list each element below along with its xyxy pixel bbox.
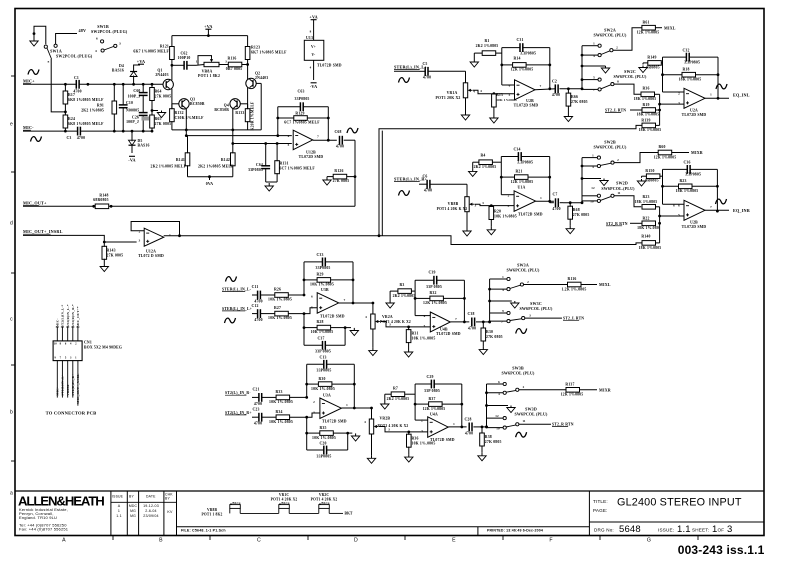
svg-text:TL072D SMD: TL072D SMD (514, 104, 539, 108)
svg-text:ST2_L RTN: ST2_L RTN (563, 316, 584, 320)
svg-text:R3: R3 (399, 283, 404, 287)
resistor R20 (489, 206, 517, 227)
wire 48V feed (56, 28, 87, 44)
svg-text:R17: R17 (68, 93, 75, 97)
svg-text:1: 1 (592, 154, 594, 158)
svg-text:2: 2 (617, 158, 619, 162)
svg-text:27K 0805: 27K 0805 (571, 100, 588, 104)
op-amp U2B (502, 80, 556, 108)
svg-text:C37: C37 (317, 337, 324, 341)
svg-text:ST2_R RTN: ST2_R RTN (606, 222, 628, 226)
svg-text:19-12-03: 19-12-03 (143, 504, 159, 508)
wire preamp bottom rail (172, 83, 261, 131)
svg-text:10K 1%.0805: 10K 1%.0805 (312, 436, 336, 440)
svg-text:6C7 1%0805 MELF: 6C7 1%0805 MELF (284, 121, 320, 125)
svg-text:C39: C39 (428, 271, 435, 275)
svg-text:18K 1%0805: 18K 1%0805 (639, 128, 662, 132)
svg-text:C10: C10 (126, 101, 133, 105)
svg-text:3: 3 (313, 411, 315, 415)
svg-text:4700: 4700 (552, 93, 560, 97)
pot VR8B (437, 184, 477, 228)
title text (593, 497, 742, 513)
text SW2B (593, 140, 627, 150)
svg-text:R142: R142 (221, 158, 230, 162)
svg-text:MIXL: MIXL (664, 25, 676, 30)
svg-text:R36: R36 (412, 437, 419, 441)
svg-text:12K 1%0805: 12K 1%0805 (654, 156, 677, 160)
svg-text:C21: C21 (252, 388, 259, 392)
svg-text:C64: C64 (256, 163, 263, 167)
resistor R28 (303, 320, 347, 334)
svg-text:C29: C29 (426, 375, 433, 379)
bottom zone tick (112, 536, 114, 541)
svg-text:D5: D5 (138, 139, 143, 143)
wire U12B feedback (278, 107, 330, 142)
svg-text:e: e (10, 122, 13, 128)
sine EQ_INR (716, 199, 727, 204)
svg-text:6K7 1%0805 MELF: 6K7 1%0805 MELF (251, 51, 287, 55)
ground R68 (566, 226, 574, 234)
ground R4 (469, 168, 477, 176)
svg-text:BY: BY (165, 496, 170, 500)
label EQ_INL (733, 93, 750, 98)
switch SW3B (498, 380, 525, 396)
ground R30v (479, 347, 487, 355)
svg-text:R61: R61 (642, 21, 649, 25)
resistor R150 (642, 169, 663, 183)
resistor R121 (133, 36, 174, 67)
sine row3 out (516, 329, 527, 334)
switch SW2A (593, 42, 618, 59)
sine st1 in (399, 78, 410, 83)
svg-text:27K 0805: 27K 0805 (573, 213, 590, 217)
bottom zone letter B (159, 538, 163, 544)
capacitor C2 (552, 80, 582, 98)
label STER(L)_IN_L- (222, 288, 252, 292)
svg-text:R116: R116 (228, 57, 237, 61)
svg-text:ST2(L)_IN_R-: ST2(L)_IN_R- (225, 391, 251, 395)
svg-text:C63: C63 (297, 90, 304, 94)
wire INSRL bus up (379, 125, 642, 235)
svg-text:6K7 1%0805 MELF: 6K7 1%0805 MELF (133, 50, 169, 54)
svg-text:+VA: +VA (204, 24, 212, 29)
drg row (594, 524, 732, 535)
svg-text:ST2_R RTN: ST2_R RTN (552, 423, 574, 427)
capacitor C34 (501, 148, 549, 165)
text SW3B (501, 365, 535, 375)
svg-text:B: B (159, 538, 163, 544)
svg-text:VR1C: VR1C (279, 493, 290, 497)
address text (19, 507, 69, 532)
svg-text:R7: R7 (393, 387, 398, 391)
svg-text:A: A (118, 504, 121, 508)
ground VR8B (463, 228, 471, 236)
capacitor C10 (119, 83, 140, 133)
capacitor C38 (467, 312, 491, 331)
svg-text:R149: R149 (647, 56, 656, 60)
svg-text:2N4403: 2N4403 (255, 76, 268, 80)
svg-text:R30: R30 (318, 377, 325, 381)
wire SW2A out (613, 28, 642, 51)
capacitor C23 (252, 408, 276, 426)
svg-text:D: D (354, 538, 358, 544)
svg-text:TITLE:: TITLE: (593, 499, 608, 504)
resistor R14 (500, 57, 551, 72)
label MIC+ (23, 79, 35, 84)
svg-text:R150: R150 (645, 169, 654, 173)
resistor R68 (568, 203, 590, 226)
switch SW3A (502, 275, 529, 292)
svg-text:C31: C31 (516, 38, 523, 42)
wire SW3D out (519, 423, 574, 427)
svg-text:R38: R38 (485, 435, 492, 439)
power +VA rail (172, 24, 248, 37)
wire input box (381, 131, 383, 236)
connector CN1 box (53, 341, 122, 361)
svg-text:R14: R14 (513, 57, 520, 61)
svg-text:PRINTED: 13:46:49 6-De: PRINTED: 13:46:49 6-Dec-2004 (487, 529, 543, 533)
left zone letter e (10, 122, 13, 128)
svg-text:OF: OF (718, 528, 725, 533)
svg-text:MIC_OUT+*: MIC_OUT+* (76, 306, 80, 327)
svg-text:SW2PCOL (PLUG): SW2PCOL (PLUG) (91, 29, 128, 34)
svg-text:MIC+: MIC+ (23, 79, 35, 84)
svg-text:VR2B: VR2B (380, 417, 391, 421)
svg-text:+VA: +VA (309, 15, 317, 20)
svg-text:DRG No:: DRG No: (594, 528, 614, 533)
pot VR2C bottom symbol (311, 493, 338, 513)
svg-text:2K2 1%0805: 2K2 1%0805 (81, 109, 104, 113)
svg-text:SW2D: SW2D (616, 181, 628, 186)
capacitor C28 (464, 417, 487, 435)
svg-text:R143: R143 (107, 249, 116, 253)
ground sw3blk (490, 301, 519, 308)
wire U4A fb (415, 384, 463, 428)
svg-text:C13: C13 (319, 356, 326, 360)
resistor R142 (198, 144, 235, 177)
svg-text:MG: MG (130, 514, 136, 518)
svg-text:7: 7 (317, 135, 319, 139)
svg-text:4: 4 (95, 49, 97, 53)
capacitor C33 (304, 253, 353, 270)
ground sw4blk (487, 406, 516, 413)
svg-text:2K2 1%0805: 2K2 1%0805 (476, 44, 499, 48)
capacitor C64 (248, 144, 270, 183)
svg-text:3: 3 (508, 204, 510, 208)
svg-text:12K 1%0805: 12K 1%0805 (511, 68, 534, 72)
wire SW1A to mic (51, 59, 65, 112)
svg-text:6K8 1%0805 MELF: 6K8 1%0805 MELF (68, 122, 104, 126)
svg-text:4: 4 (310, 66, 312, 70)
pot VR2A (365, 314, 411, 348)
transistor Q4 (214, 99, 247, 144)
wire U12A feedback box (131, 222, 179, 236)
resistor R139 (639, 119, 662, 133)
resistor R36t (634, 87, 660, 101)
svg-text:33P0805: 33P0805 (248, 168, 263, 172)
svg-text:d: d (10, 221, 13, 227)
capacitor C63 (278, 90, 329, 112)
svg-text:6: 6 (498, 380, 500, 384)
svg-text:D4: D4 (119, 64, 124, 68)
svg-text:ST2(L)_IN_R+: ST2(L)_IN_R+ (225, 411, 252, 415)
resistor R34 (269, 410, 320, 424)
op-amp U4A (421, 413, 466, 442)
svg-text:C38: C38 (467, 312, 474, 316)
svg-text:R140: R140 (641, 235, 650, 239)
resistor R32 (414, 291, 466, 305)
switch SW2B (592, 154, 619, 170)
svg-text:VR8B: VR8B (207, 508, 218, 512)
svg-text:3.3P0805: 3.3P0805 (685, 173, 701, 177)
svg-text:12K 1%0805: 12K 1%0805 (561, 393, 584, 397)
svg-text:3.3P0805: 3.3P0805 (684, 61, 700, 65)
svg-text:1: 1 (540, 196, 542, 200)
svg-text:U2A: U2A (690, 109, 698, 113)
svg-text:4700: 4700 (77, 136, 85, 140)
wire U12A out (164, 234, 381, 237)
svg-text:2K2 1%0805: 2K2 1%0805 (387, 397, 410, 401)
svg-text:2K2 1%0805 MELF: 2K2 1%0805 MELF (198, 165, 234, 169)
text SW3A (506, 263, 540, 273)
pot VR2B (364, 417, 408, 456)
svg-text:ST2(R)IN_R-*: ST2(R)IN_R-* (71, 304, 75, 327)
left zone letter d (10, 221, 13, 227)
resistor R131 (275, 144, 316, 183)
svg-text:Q4: Q4 (224, 104, 229, 108)
resistor R66 (566, 89, 588, 114)
resistor R27 (268, 306, 317, 320)
resistor R26 (268, 288, 305, 302)
svg-text:MIC+: MIC+ (56, 386, 60, 395)
svg-text:2: 2 (139, 230, 141, 234)
svg-text:SW6PCOL (PLU): SW6PCOL (PLU) (613, 74, 647, 79)
wire SW2C out (614, 84, 641, 94)
svg-text:U12B: U12B (306, 151, 316, 155)
wire U12B out (313, 139, 337, 141)
svg-text:BKT: BKT (345, 512, 354, 516)
label STER(L)_IN_L+ (222, 307, 252, 311)
svg-text:3.3P0805: 3.3P0805 (517, 161, 533, 165)
svg-text:R1: R1 (484, 39, 489, 43)
svg-text:7: 7 (710, 205, 712, 209)
capacitor C60 (128, 83, 148, 113)
svg-text:U4A: U4A (430, 413, 438, 417)
wire MIC_OUT+ (23, 205, 355, 208)
svg-text:C28: C28 (464, 417, 471, 421)
label STER(L)_IN_R+ (394, 177, 428, 182)
svg-text:12K 1%0805: 12K 1%0805 (511, 180, 534, 184)
ground R20 (487, 227, 495, 235)
svg-text:SW6PCOL (PLU): SW6PCOL (PLU) (593, 33, 627, 38)
sine u1a in (399, 191, 410, 196)
resistor R129 (276, 112, 329, 125)
pot VR1C bottom symbol (271, 493, 298, 513)
svg-text:10K 1%0805: 10K 1%0805 (311, 330, 334, 334)
svg-text:R116: R116 (568, 277, 577, 281)
svg-text:3: 3 (482, 201, 484, 205)
svg-text:MDC: MDC (129, 504, 138, 508)
svg-text:VR8B2: VR8B2 (66, 384, 70, 395)
svg-text:2: 2 (313, 400, 315, 404)
svg-text:R148: R148 (99, 194, 108, 198)
capacitor C36 (663, 161, 718, 177)
text SW2D (601, 181, 635, 192)
svg-text:VR8A: VR8A (202, 70, 213, 74)
svg-text:1: 1 (593, 42, 595, 46)
svg-text:C30K 1%MELF: C30K 1%MELF (175, 116, 205, 120)
transistor Q2 2N4403 (246, 65, 269, 110)
power block U13 (304, 15, 341, 89)
svg-text:TL072D SMD: TL072D SMD (436, 332, 461, 336)
resistor R37 (414, 397, 463, 411)
ground R31 (404, 349, 412, 357)
svg-text:U3B: U3B (321, 288, 329, 292)
capacitor C11 (252, 285, 275, 304)
op-amp U4B (424, 312, 470, 336)
capacitor C13 (307, 356, 355, 373)
sine row3b (225, 318, 236, 323)
bottom zone tick (599, 536, 601, 541)
connector top wires (54, 304, 80, 346)
svg-text:5: 5 (678, 213, 680, 217)
svg-text:KV: KV (167, 510, 173, 514)
svg-text:33P0805: 33P0805 (316, 266, 331, 270)
svg-text:003-243 iss.1.1: 003-243 iss.1.1 (678, 543, 765, 557)
resistor R60 (654, 145, 703, 160)
svg-text:R31: R31 (412, 332, 419, 336)
svg-text:2: 2 (527, 280, 529, 284)
svg-text:6: 6 (678, 204, 680, 208)
left zone tick (11, 75, 15, 77)
svg-text:27K 0805: 27K 0805 (155, 122, 172, 126)
svg-text:MIXL: MIXL (599, 282, 611, 287)
svg-text:Fax: +44 (0)8707 556251: Fax: +44 (0)8707 556251 (19, 527, 69, 532)
op-amp U1A (508, 186, 554, 217)
svg-text:C34: C34 (513, 148, 520, 152)
ground (phantom) (30, 26, 46, 46)
ground R28 (350, 328, 358, 336)
svg-text:*: * (47, 60, 49, 65)
pot VR8B bottom symbol (202, 501, 241, 517)
capacitor C62 (172, 52, 197, 70)
svg-text:R34: R34 (275, 410, 282, 414)
resistor R35 (305, 426, 349, 440)
svg-text:A: A (62, 538, 66, 544)
svg-text:2-6-04: 2-6-04 (145, 509, 156, 513)
label STER(L)_IN_L+ (394, 65, 427, 70)
ground R143 (100, 264, 108, 272)
text TO CONNECTOR PCB (46, 411, 97, 416)
svg-text:EQ_INR: EQ_INR (733, 208, 751, 213)
svg-text:100P_J: 100P_J (126, 120, 139, 124)
svg-text:R91: R91 (97, 104, 104, 108)
svg-text:2K2 1%0805 MELF: 2K2 1%0805 MELF (151, 165, 187, 169)
svg-text:BAS16: BAS16 (112, 69, 124, 73)
ground R66 (564, 114, 572, 122)
resistor R137 (561, 382, 611, 396)
svg-text:R18: R18 (682, 68, 689, 72)
svg-text:3: 3 (119, 42, 121, 46)
svg-text:TL072D SMD: TL072D SMD (682, 225, 707, 229)
wire U4B fb (415, 280, 466, 323)
ground R35 (351, 433, 359, 441)
svg-text:5: 5 (311, 306, 313, 310)
svg-text:5: 5 (424, 324, 426, 328)
ground VR2B (367, 455, 375, 463)
resistor R24 (63, 115, 104, 131)
wire MIC+ rail (23, 83, 163, 86)
svg-text:12: 12 (495, 414, 499, 418)
bottom zone letter F (549, 538, 552, 544)
svg-text:68R0805: 68R0805 (93, 198, 108, 202)
svg-text:6C7 1%0805 MELF: 6C7 1%0805 MELF (280, 167, 316, 171)
capacitor C5 (419, 62, 466, 80)
svg-text:4700: 4700 (468, 327, 476, 331)
svg-text:U2B: U2B (690, 221, 698, 225)
svg-text:10: 10 (496, 427, 500, 431)
svg-text:4700: 4700 (254, 422, 262, 426)
resistor R116b (561, 277, 610, 291)
svg-text:5: 5 (509, 93, 511, 97)
ground sw2blk (582, 179, 608, 186)
wire stage1 input bus (394, 70, 419, 72)
svg-text:10K 1%.0805: 10K 1%.0805 (269, 400, 293, 404)
svg-text:E: E (452, 538, 456, 544)
svg-text:POT1 4 20K X2: POT1 4 20K X2 (311, 498, 338, 502)
ground VR1A (461, 112, 469, 120)
wire SW2D out (614, 196, 641, 207)
ground R150 (637, 179, 645, 186)
switch SW2D (590, 186, 621, 204)
switch SW1B (91, 24, 128, 53)
capacitor C1 (73, 76, 81, 94)
printed text (487, 529, 543, 533)
label ST2(L)_IN_R+ (225, 411, 252, 415)
svg-text:SW6PCOL (PLU): SW6PCOL (PLU) (593, 145, 627, 150)
bottom zone tick (404, 536, 406, 541)
issue table header (112, 493, 173, 501)
wire R141 R142 join (188, 175, 233, 186)
svg-text:10K 1%.0805: 10K 1%.0805 (311, 387, 335, 391)
svg-text:BOX 5X2 M4 90DEG: BOX 5X2 M4 90DEG (84, 346, 122, 350)
svg-text:R131: R131 (280, 162, 289, 166)
svg-text:PAGE:: PAGE: (593, 508, 608, 513)
resistor R140 (639, 235, 662, 250)
svg-text:R139: R139 (641, 119, 650, 123)
svg-text:10K 1%.0805: 10K 1%.0805 (268, 316, 292, 320)
svg-text:18K 1%0805: 18K 1%0805 (676, 189, 699, 193)
svg-text:6: 6 (96, 37, 98, 41)
svg-text:2: 2 (523, 385, 525, 389)
svg-text:4700: 4700 (552, 207, 560, 211)
switch bus stage3 (488, 279, 507, 323)
svg-text:27K 0805: 27K 0805 (485, 440, 502, 444)
op-amp U3A (313, 394, 371, 424)
svg-text:2: 2 (678, 92, 680, 96)
svg-text:R37: R37 (428, 397, 435, 401)
resistor R23f (661, 179, 719, 193)
switch SW3D (495, 414, 526, 431)
svg-text:STER(L)_IN_L-: STER(L)_IN_L- (222, 288, 252, 292)
svg-text:R123: R123 (251, 46, 260, 50)
resistor R148 (93, 194, 108, 209)
pot VR1A (436, 71, 476, 112)
svg-text:10K 1%.0805: 10K 1%.0805 (412, 442, 436, 446)
svg-text:Q2: Q2 (255, 72, 260, 76)
resistor R29 (303, 273, 355, 287)
svg-text:U13: U13 (306, 36, 313, 40)
